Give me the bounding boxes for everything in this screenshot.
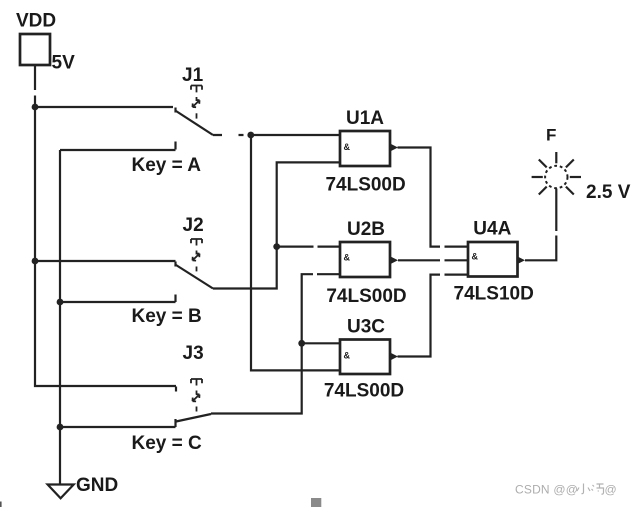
wire J3 lower throw [60,426,176,428]
svg-text:CSDN @@: CSDN @@ [515,483,578,497]
nand gate U1A [340,131,398,166]
wire J2 feed [35,260,176,262]
switch J1 [176,108,214,150]
svg-text:Key = A: Key = A [132,155,202,176]
wire node A down to U3C input [251,135,340,370]
node junction A [247,132,254,139]
wire VDD rail down to J3 feed [35,107,176,386]
svg-text:U4A: U4A [473,219,511,240]
wire J1 feed [35,106,173,108]
node junction C [298,340,305,347]
node junction VDD-J1 [32,104,39,111]
wire U2B output to U4A pin2 (with gap) [398,259,468,261]
wire node B to U2B input (with gap) [277,246,340,248]
svg-text:U3C: U3C [347,317,385,338]
svg-text:5V: 5V [52,53,76,74]
wire J2 output up to node B [213,162,340,288]
svg-text:@: @ [605,483,617,497]
svg-text:&: & [344,351,351,361]
key symbol J3 [191,379,202,412]
watermark glyph xiao [577,484,590,494]
wire U4A output to lamp (with gap) [525,189,556,261]
svg-text:F: F [546,126,556,145]
svg-text:2.5 V: 2.5 V [586,182,631,203]
wire VDD drop (with gap) [34,65,36,107]
node junction B [273,243,280,250]
svg-text:U1A: U1A [346,108,384,129]
power VDD symbol [20,34,50,65]
lamp rays [532,152,581,195]
svg-text:74LS10D: 74LS10D [454,284,534,305]
svg-text:J3: J3 [183,343,204,364]
wire U1A output to U4A pin1 (with gap) [398,148,469,247]
node junction VDD-J2 [32,258,39,265]
nand gate U3C [340,340,398,375]
wire J1 output (with gap) [213,134,340,136]
svg-text:74LS00D: 74LS00D [326,286,406,307]
wire U3C output to U4A pin3 (with gap) [398,275,469,357]
wire J1 lower throw [60,149,176,151]
watermark CSDN [515,483,578,497]
svg-text:74LS00D: 74LS00D [325,174,405,195]
node junction GND-J2 [57,299,64,306]
nand gate U2B [340,242,398,277]
wire J3 output up to U2B input (with gap) [211,274,341,413]
svg-text:Key = B: Key = B [132,306,202,327]
svg-text:J1: J1 [182,65,204,86]
watermark glyph feng [592,484,604,494]
svg-text:Key = C: Key = C [132,433,203,454]
nand gate U4A [468,242,525,277]
wire GND rail [59,150,61,485]
wire J2 lower throw [60,301,176,303]
gray scroll square bottom [311,498,321,507]
lamp X1 circle [545,166,567,188]
switch J3 [176,387,212,428]
svg-text:&: & [344,142,351,152]
key symbol J1 [191,86,202,119]
svg-text:&: & [344,253,351,263]
svg-text:U2B: U2B [347,219,385,240]
wire node C to U3C input [302,342,340,344]
svg-text:74LS00D: 74LS00D [324,381,404,402]
svg-text:&: & [472,252,479,262]
node junction GND-J3 [57,424,64,431]
ground symbol [48,485,74,499]
svg-text:J2: J2 [183,215,204,236]
gray corner bar bottom-left [0,502,2,507]
key symbol J2 [191,239,202,271]
svg-text:VDD: VDD [16,10,56,31]
switch J2 [176,262,214,303]
svg-text:GND: GND [76,475,118,496]
